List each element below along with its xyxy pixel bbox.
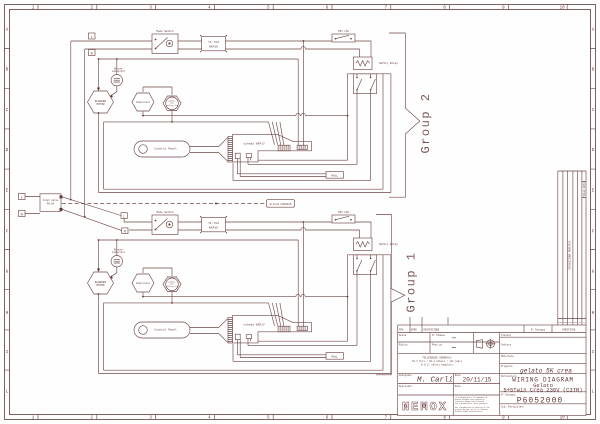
svg-text:N° Stampo: N° Stampo	[432, 334, 445, 337]
svg-text:P6052000: P6052000	[517, 396, 563, 405]
svg-text:gelato 5K crea: gelato 5K crea	[520, 368, 572, 375]
svg-text:N° Disegno: N° Disegno	[501, 393, 516, 396]
svg-text:N: N	[21, 213, 23, 217]
svg-text:Cod. Particolare: Cod. Particolare	[501, 405, 525, 408]
svg-text:without NEMOX authorization: without NEMOX authorization	[455, 411, 482, 413]
svg-text:Ritiro: Ritiro	[399, 344, 408, 347]
svg-text:N: N	[124, 230, 126, 234]
svg-text:MODIFICHE: MODIFICHE	[563, 329, 576, 332]
svg-text:L: L	[123, 214, 125, 218]
svg-text:Disegnato: Disegnato	[399, 374, 412, 377]
svg-text:20/11/15: 20/11/15	[463, 377, 492, 384]
svg-text:DESCRIZIONE: DESCRIZIONE	[424, 329, 440, 332]
svg-text:APRO: APRO	[411, 329, 417, 332]
svg-text:L: L	[21, 196, 23, 200]
svg-text:Group 2: Group 2	[419, 93, 433, 154]
svg-text:Cliente: Cliente	[501, 334, 512, 337]
svg-text:Approvato: Approvato	[399, 385, 412, 388]
svg-text:DATA: DATA	[583, 182, 586, 188]
svg-text:Ground CHASSIS: Ground CHASSIS	[270, 202, 292, 206]
svg-text:NEMOX: NEMOX	[402, 400, 448, 414]
svg-text:& 0.2° valori angolari: & 0.2° valori angolari	[421, 364, 453, 367]
svg-text:SIGLA: SIGLA	[583, 189, 586, 197]
svg-text:Scala: Scala	[399, 334, 407, 337]
svg-text:DESCRIZIONE MODIFICA: DESCRIZIONE MODIFICA	[568, 240, 571, 269]
svg-text:POS.: POS.	[399, 329, 405, 332]
svg-text:FW-GA: FW-GA	[47, 202, 55, 205]
svg-text:N: N	[91, 52, 93, 56]
svg-text:L: L	[91, 36, 93, 40]
svg-text:Inlet valve: Inlet valve	[43, 199, 59, 202]
svg-text:Data: Data	[455, 385, 461, 388]
svg-text:Fattura: Fattura	[501, 344, 512, 347]
svg-text:Progetto: Progetto	[501, 365, 513, 368]
svg-text:Data: Data	[455, 374, 461, 377]
svg-text:M. Carli: M. Carli	[417, 377, 453, 385]
svg-text:10: 10	[560, 416, 566, 420]
svg-text:Group 1: Group 1	[405, 252, 419, 313]
svg-text:Materiale: Materiale	[501, 355, 514, 358]
svg-text:non riproducibili senza permes: non riproducibili senza permesso	[455, 403, 487, 405]
svg-text:N° Disegno: N° Disegno	[531, 329, 546, 332]
svg-text:10: 10	[560, 6, 566, 10]
svg-text:Peso gr.: Peso gr.	[432, 344, 443, 347]
